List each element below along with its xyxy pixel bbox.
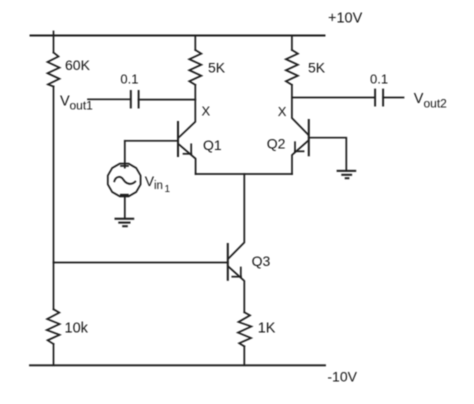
wire common emitter rail <box>196 173 292 175</box>
resistor R 5K (left) <box>189 36 201 85</box>
source Vin1 <box>108 164 141 197</box>
label 1K <box>258 321 276 337</box>
wire Q3 base from left rail <box>54 262 228 264</box>
svg-text:X: X <box>278 104 287 119</box>
svg-text:Q2: Q2 <box>267 135 286 151</box>
resistor R 60K <box>48 53 60 87</box>
svg-text:0.1: 0.1 <box>370 72 388 87</box>
wire Q1 base <box>125 140 178 142</box>
svg-text:1: 1 <box>165 184 171 195</box>
svg-text:V: V <box>60 94 70 110</box>
svg-text:Q3: Q3 <box>252 253 271 269</box>
wire left rail middle <box>53 87 55 310</box>
wire bottom -10V rail <box>30 364 325 366</box>
label Vout2 <box>414 91 447 111</box>
wire node X2 to C2 <box>292 97 375 99</box>
label Q2 <box>267 135 286 151</box>
svg-text:5K: 5K <box>308 60 326 76</box>
label 10k <box>65 321 89 337</box>
svg-text:-10V: -10V <box>327 369 357 385</box>
capacitor C1 0.1 <box>131 91 139 108</box>
wire top +10V rail <box>31 35 325 37</box>
svg-text:out2: out2 <box>424 96 448 110</box>
label X (left node) <box>202 103 211 118</box>
label +10V <box>328 11 363 27</box>
svg-text:in: in <box>154 180 163 192</box>
transistor Q2 <box>292 120 309 174</box>
label Q3 <box>252 253 271 269</box>
svg-text:out1: out1 <box>70 99 94 113</box>
svg-text:+10V: +10V <box>328 11 363 27</box>
label 60K <box>65 57 91 73</box>
label X (right node) <box>278 104 287 119</box>
label 0.1 (left) <box>120 72 138 87</box>
wire R5K to Q1 collector, node X1 <box>179 85 196 138</box>
transistor Q1 <box>178 122 196 174</box>
ground (under Vin1) <box>116 219 134 227</box>
wire base down to source Vin1 <box>124 141 126 168</box>
label -10V <box>327 369 357 385</box>
ground (right of Q2) <box>338 171 356 178</box>
wire emitter node to Q3 collector <box>228 174 244 259</box>
label Vin1 <box>145 173 171 195</box>
wire left rail upper <box>53 32 55 53</box>
svg-text:0.1: 0.1 <box>120 72 138 87</box>
wire C2 to Vout2 <box>383 97 403 99</box>
label 0.1 (right) <box>370 72 388 87</box>
resistor R 5K (right) <box>286 36 298 85</box>
label Vout1 <box>60 94 93 113</box>
label 5K (left) <box>208 60 226 76</box>
wire C1 to node X1 <box>139 99 196 101</box>
resistor R 1K <box>238 312 251 365</box>
label Q1 <box>203 137 222 153</box>
label 5K (right) <box>308 60 326 76</box>
svg-text:X: X <box>202 103 211 118</box>
svg-text:5K: 5K <box>208 60 226 76</box>
svg-text:Q1: Q1 <box>203 137 222 153</box>
wire Vout1 to C1 <box>88 98 131 100</box>
svg-text:60K: 60K <box>65 57 91 73</box>
wire Vin1 to ground <box>124 197 126 219</box>
svg-text:1K: 1K <box>258 321 276 337</box>
svg-text:10k: 10k <box>65 321 89 337</box>
wire left rail lower <box>53 344 55 365</box>
wire R5K to Q2 collector, node X2 <box>292 85 309 135</box>
transistor Q3 <box>228 244 245 312</box>
capacitor C2 0.1 <box>375 90 383 106</box>
resistor R 10k <box>47 309 60 344</box>
wire Q2 base to ground stub <box>309 138 347 171</box>
svg-text:V: V <box>414 91 424 107</box>
